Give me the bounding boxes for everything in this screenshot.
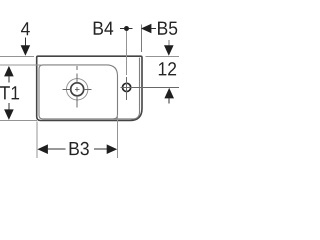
- tap hole crosshair horizontal / dim 12 boundary line: [121, 86, 179, 88]
- drain crosshair horizontal center dash: [75, 88, 79, 90]
- rear edge extension line right: [146, 55, 180, 57]
- drain crosshair top dash: [76, 66, 78, 70]
- dim 4 arrow line: [24, 38, 26, 47]
- dim T1 arrowhead up: [4, 66, 14, 77]
- dim 12 upper stub: [168, 40, 170, 46]
- dim B4 dot: [124, 26, 129, 31]
- tap hole circle: [123, 83, 131, 91]
- dim B3 line left: [47, 148, 66, 150]
- basin inner bowl contour: [39, 65, 118, 119]
- drain crosshair vertical top arm: [76, 74, 78, 83]
- front edge extension line left: [0, 119, 37, 121]
- drain crosshair horizontal left arm: [62, 88, 70, 90]
- dim 12 arrowhead up: [164, 88, 174, 99]
- dim 4 arrowhead down: [21, 45, 31, 56]
- drain inner circle: [71, 83, 84, 96]
- label B5: [158, 22, 177, 35]
- dim B3 arrowhead left: [37, 144, 48, 154]
- right edge extension line up: [141, 25, 143, 53]
- drain outer circle: [67, 79, 88, 100]
- dim B5 arrowhead left: [141, 24, 152, 34]
- tap hole extension line down from dot: [126, 31, 128, 75]
- drain crosshair vertical bottom arm: [76, 96, 78, 108]
- dim 12 arrowhead down: [164, 45, 174, 56]
- label B3: [70, 142, 89, 156]
- tap hole crosshair vertical: [126, 77, 128, 100]
- basin outer contour: [37, 56, 142, 120]
- label T1: [0, 86, 19, 99]
- dim B4 line left of dot: [120, 28, 124, 30]
- dim T1 arrowhead down: [4, 109, 14, 120]
- label 4: [21, 22, 30, 35]
- B3 extension line left: [36, 122, 38, 159]
- dim B3 line right: [94, 148, 108, 150]
- dim B5 tail line: [151, 28, 156, 30]
- label B4: [94, 22, 114, 35]
- tap bank inner edge: [113, 58, 140, 119]
- rear edge extension line left: [0, 55, 34, 57]
- dim 12 lower stub: [168, 98, 170, 104]
- drain crosshair vertical center dash: [76, 87, 78, 91]
- drain crosshair horizontal right arm: [84, 88, 92, 90]
- dim B3 arrowhead right: [107, 144, 118, 154]
- dim T1 line lower: [8, 103, 10, 111]
- inner rear ledge extension line left: [0, 64, 42, 66]
- dim T1 line upper: [8, 76, 10, 83]
- dim B4 line right of dot: [129, 28, 133, 30]
- B3 extension line right: [116, 115, 118, 158]
- label 12: [159, 62, 176, 75]
